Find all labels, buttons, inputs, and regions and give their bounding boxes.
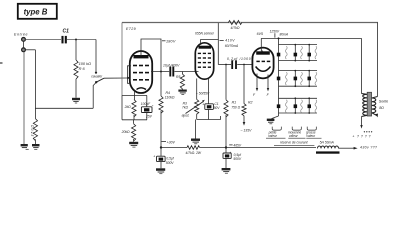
svg-text:E729: E729 bbox=[126, 27, 136, 31]
capacitor 100μF 25V bbox=[141, 96, 154, 120]
bank row1 top rail bbox=[279, 44, 318, 46]
resistor 20kΩ bbox=[121, 120, 136, 142]
wire bottom return to cavalier bbox=[35, 107, 93, 109]
ground right 0,5μf bbox=[222, 168, 231, 173]
svg-text:– 135V: – 135V bbox=[240, 128, 252, 132]
svg-text:2kΩ: 2kΩ bbox=[124, 105, 132, 109]
tube V3 filament leads bbox=[253, 74, 270, 98]
wire input top to C1 bbox=[25, 39, 61, 41]
wire transformer primary return bbox=[360, 117, 362, 129]
svg-text:ajust.: ajust. bbox=[182, 113, 190, 117]
choke 5H 50mA bbox=[316, 141, 340, 154]
node junction dot bbox=[160, 71, 162, 73]
svg-text:100μF: 100μF bbox=[141, 102, 151, 106]
tube V2 grid dashes bbox=[198, 53, 211, 67]
ground left 0,5μf bbox=[156, 168, 165, 173]
wire HT B+ feed bbox=[261, 37, 361, 39]
jumper "cavalier" bbox=[91, 40, 104, 109]
svg-text:60/70mA: 60/70mA bbox=[225, 44, 239, 48]
capacitor 0,5μf 500V right bbox=[223, 148, 242, 169]
wire V2 anode hat bbox=[201, 23, 219, 44]
capacitor 0,5μf 500V left bbox=[153, 148, 175, 169]
wire screen rail drop x122 bbox=[121, 23, 123, 96]
brace grosse bbox=[307, 127, 316, 131]
tube V2 anode bar bbox=[199, 46, 212, 49]
bus HT secondary y147.5 bbox=[161, 147, 187, 149]
svg-text:5H 50mA: 5H 50mA bbox=[320, 141, 335, 145]
resistor R5 bbox=[176, 72, 185, 90]
wire input bottom bbox=[25, 49, 35, 51]
tube V1 grid side bracket bbox=[128, 66, 132, 84]
tube V1 anode bar bbox=[134, 55, 149, 58]
svg-text:4/7kΩ: 4/7kΩ bbox=[231, 26, 240, 30]
svg-text:10μf /400V: 10μf /400V bbox=[163, 63, 180, 67]
node junction at R6 tap bbox=[75, 39, 77, 41]
resistor 4/7kΩ 2W bbox=[186, 146, 202, 155]
svg-text:110kΩ: 110kΩ bbox=[165, 96, 175, 100]
svg-text:430v ???: 430v ??? bbox=[360, 146, 377, 150]
bank row2 bottom rail bbox=[279, 85, 318, 87]
wire HT to transformer left bbox=[361, 38, 363, 93]
svg-text:80mA: 80mA bbox=[280, 33, 289, 37]
svg-text:réserve de courant: réserve de courant bbox=[280, 140, 309, 144]
resistor 47kΩ on rail bbox=[228, 21, 241, 31]
tube V3 anode bar bbox=[256, 51, 270, 54]
tube V1 cathode bar bbox=[137, 88, 147, 90]
svg-text:+: + bbox=[352, 134, 354, 138]
svg-text:8Ω: 8Ω bbox=[379, 106, 384, 110]
potentiometer R3 7kΩ ajust bbox=[182, 99, 205, 119]
svg-text:+30V: +30V bbox=[167, 140, 176, 144]
svg-text:410V: 410V bbox=[225, 38, 235, 42]
brace moyenne bbox=[292, 127, 301, 131]
svg-text:+: + bbox=[153, 154, 155, 158]
svg-text:180V: 180V bbox=[166, 40, 176, 44]
ground under 350Ω bbox=[32, 144, 40, 149]
wire V1 anode out y71.5 bbox=[151, 71, 169, 73]
resistor 350Ω input load bbox=[31, 50, 38, 144]
ground V2 cathode bbox=[191, 139, 200, 144]
tube V1 envelope bbox=[130, 51, 152, 93]
wire 161 drop to bus bbox=[160, 72, 162, 97]
svg-text:20kΩ: 20kΩ bbox=[121, 130, 130, 134]
tick 1250V bbox=[274, 33, 276, 37]
svg-text:valeur: valeur bbox=[306, 134, 316, 138]
input terminal J1 top bbox=[22, 38, 26, 42]
svg-text:Entrée: Entrée bbox=[14, 33, 28, 37]
wire rail to transformer right bbox=[377, 23, 379, 97]
node 465V tick bbox=[229, 144, 232, 146]
ground bank rail bbox=[267, 119, 275, 124]
wire cathode net bottom bbox=[197, 116, 221, 120]
svg-text:R4: R4 bbox=[166, 91, 171, 95]
svg-text:50V: 50V bbox=[214, 106, 221, 110]
capacitor bank left rail bbox=[278, 38, 280, 116]
svg-text:valeur: valeur bbox=[268, 134, 278, 138]
capacitor C2 50V cathode bypass bbox=[202, 79, 220, 120]
HT rail top bbox=[122, 22, 378, 24]
wire C1 to cavalier bbox=[67, 39, 96, 41]
resistor R6 100k bbox=[74, 40, 91, 98]
cathode box V1 top rail bbox=[122, 95, 147, 97]
bank capacitor cells column lines bbox=[295, 45, 309, 113]
bank row3 bottom rail bbox=[279, 112, 318, 114]
svg-text:465V: 465V bbox=[233, 143, 242, 147]
svg-text:valeur: valeur bbox=[289, 134, 299, 138]
bank row1 bottom rail bbox=[279, 60, 318, 62]
svg-text:type B: type B bbox=[24, 8, 48, 17]
resistor 2kΩ cathode bbox=[124, 100, 137, 120]
wire left drop A bbox=[23, 52, 25, 144]
tube V1 grid dashes bbox=[133, 66, 149, 80]
input terminal J1 bottom bbox=[22, 48, 26, 52]
tube V3 envelope bbox=[252, 48, 273, 79]
wire V1 cathode lead bbox=[134, 91, 136, 100]
svg-text:6V5: 6V5 bbox=[257, 32, 263, 36]
node +30V tick bbox=[162, 141, 167, 143]
ground under R5 bbox=[178, 90, 186, 95]
svg-text:+: + bbox=[202, 102, 204, 106]
svg-text:R1: R1 bbox=[232, 101, 237, 105]
arrowhead into grid bbox=[127, 77, 130, 80]
bank bleeder resistor squiggles bbox=[285, 46, 316, 112]
tube V2 envelope bbox=[195, 43, 213, 79]
svg-text:750 Ω: 750 Ω bbox=[231, 106, 240, 110]
cathode box left side bbox=[121, 96, 123, 120]
bank row2 top rail bbox=[279, 70, 318, 72]
wire terminal link bbox=[23, 41, 25, 48]
svg-text:25V: 25V bbox=[145, 115, 153, 119]
capacitor C1 bbox=[63, 29, 70, 44]
resistor R1 750Ω grid leak bbox=[224, 65, 241, 148]
ground under wire A bbox=[21, 144, 29, 149]
svg-text:+: + bbox=[230, 150, 232, 154]
svg-text:– 50/55V: – 50/55V bbox=[195, 91, 210, 95]
svg-text:R2: R2 bbox=[248, 100, 253, 104]
node 410V tick bbox=[220, 40, 224, 42]
title box "type B" bbox=[18, 4, 57, 19]
wire choke out + arrow bbox=[339, 147, 358, 150]
ground under R6 bbox=[72, 98, 80, 103]
svg-text:1250V: 1250V bbox=[270, 29, 280, 33]
ground under 20kΩ bbox=[129, 142, 138, 147]
cathode box V1 bottom rail bbox=[122, 119, 147, 121]
output transformer T1 bbox=[362, 92, 379, 117]
brace petite bbox=[272, 127, 281, 131]
svg-text:Sortie: Sortie bbox=[379, 99, 388, 103]
wire cap to V3 grid bbox=[237, 64, 253, 66]
left edge tick bbox=[0, 62, 3, 64]
capacitor 10μf/400V bbox=[163, 63, 180, 76]
bank capacitor squares bbox=[277, 53, 311, 108]
tube V3 cathode arc bbox=[256, 67, 271, 72]
svg-text:7kΩ: 7kΩ bbox=[182, 105, 188, 109]
svg-text:R5: R5 bbox=[176, 75, 180, 79]
wire cap to V2 grid bbox=[174, 71, 198, 73]
wire grid of V1 bbox=[104, 77, 127, 79]
svg-text:500V: 500V bbox=[233, 157, 242, 161]
dots lead bbox=[364, 131, 373, 132]
wire V2 anode drop to coupling cap bbox=[217, 40, 219, 65]
capacitor 0,2μF/1000V bbox=[227, 57, 254, 69]
node dot R2 tap bbox=[243, 64, 245, 66]
wire V1 anode to 180V corner bbox=[141, 39, 161, 72]
wire V3 anode up bbox=[261, 38, 263, 51]
svg-text:655N serieel: 655N serieel bbox=[195, 32, 214, 36]
svg-text:0,2μf /1000V: 0,2μf /1000V bbox=[227, 57, 254, 61]
wire V2 cathode lead left bbox=[196, 79, 198, 100]
bank junction dots bbox=[294, 44, 310, 114]
wire coupling node bbox=[218, 64, 231, 66]
tube V3 grid dashes bbox=[256, 60, 270, 62]
resistor R2 bias feed bbox=[242, 65, 253, 126]
svg-text:500V: 500V bbox=[166, 161, 175, 165]
resistor R4 110kΩ bbox=[159, 91, 175, 147]
svg-text:4/7kΩ. 2W: 4/7kΩ. 2W bbox=[186, 151, 202, 155]
svg-text:cavalier: cavalier bbox=[91, 75, 103, 79]
svg-text:R 6: R 6 bbox=[79, 66, 86, 71]
bank row3 top rail bbox=[279, 97, 318, 99]
node 180V tick bbox=[162, 40, 166, 42]
svg-text:C1: C1 bbox=[63, 29, 70, 35]
wire drop to ground bbox=[195, 120, 197, 139]
